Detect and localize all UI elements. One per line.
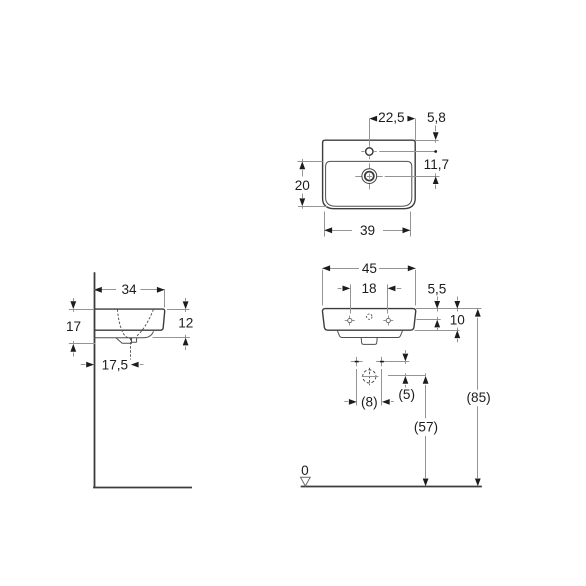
dim 12 [167, 309, 190, 311]
svg-text:18: 18 [361, 281, 376, 296]
tap hole centerline vertical [369, 119, 371, 147]
fixing hole left [345, 316, 355, 326]
lower vertical line right [381, 369, 383, 406]
svg-text:39: 39 [360, 223, 375, 238]
dim 20 [298, 161, 323, 163]
svg-text:45: 45 [362, 261, 377, 276]
tap hole dashed (front) [367, 314, 372, 319]
tap hole crosshair horizontal + leader to dot [361, 151, 364, 153]
hidden bowl front wall [117, 310, 132, 339]
drain outer circle [362, 169, 377, 184]
hidden drain circle [363, 370, 376, 383]
dim (57) vertical [423, 376, 429, 384]
svg-text:0: 0 [301, 463, 309, 478]
svg-text:10: 10 [450, 313, 466, 328]
dim 17,5 [81, 364, 86, 366]
floor (side) [93, 487, 192, 489]
svg-text:5,8: 5,8 [427, 110, 446, 125]
drain boss [361, 338, 377, 345]
dim 22,5 [415, 119, 417, 140]
basin outer outline (plan) [323, 140, 416, 209]
tap hole [366, 148, 373, 155]
dim 17 [69, 309, 94, 311]
dim 34 [164, 290, 166, 308]
ref line fixing row [388, 361, 410, 363]
svg-text:17: 17 [66, 319, 81, 334]
ref line (5)/(57) [388, 375, 426, 377]
fixing hole right [383, 316, 393, 326]
svg-text:22,5: 22,5 [378, 110, 404, 125]
drain centerline dashed [130, 338, 132, 360]
trap outline [116, 338, 132, 344]
drain crosshair [355, 176, 361, 178]
drain inner circle [365, 172, 374, 181]
svg-text:(5): (5) [398, 387, 415, 402]
dim 39 [324, 212, 326, 237]
svg-text:11,7: 11,7 [424, 157, 449, 172]
wall [94, 272, 96, 488]
lower crosshair left [351, 357, 363, 366]
dim (85) vertical [475, 309, 481, 317]
trap outlet stub [132, 338, 137, 342]
lower vertical line left [356, 369, 358, 406]
zero level triangle [301, 477, 311, 486]
ref line top of basin to (85) [416, 308, 482, 310]
dim (8) [344, 401, 348, 403]
lower crosshair right [376, 357, 388, 366]
dot terminator [434, 150, 437, 153]
arrow crossing ticks [74, 140, 458, 375]
basin front band [322, 309, 415, 331]
svg-text:34: 34 [121, 282, 137, 297]
basin inner bowl (plan) [326, 161, 412, 206]
dim 18 [350, 284, 352, 313]
svg-text:20: 20 [295, 178, 311, 193]
floor line (front) [301, 486, 482, 488]
basin underside [94, 331, 154, 337]
svg-text:5,5: 5,5 [427, 281, 446, 296]
svg-text:17,5: 17,5 [102, 358, 128, 373]
dim 45 [322, 270, 324, 306]
svg-text:(8): (8) [361, 394, 378, 409]
basin rim profile [94, 309, 165, 330]
svg-text:12: 12 [178, 316, 193, 331]
basin bowl band [337, 330, 403, 337]
hidden bowl rear wall [137, 310, 154, 337]
svg-text:(57): (57) [414, 420, 438, 435]
svg-text:(85): (85) [467, 390, 491, 405]
